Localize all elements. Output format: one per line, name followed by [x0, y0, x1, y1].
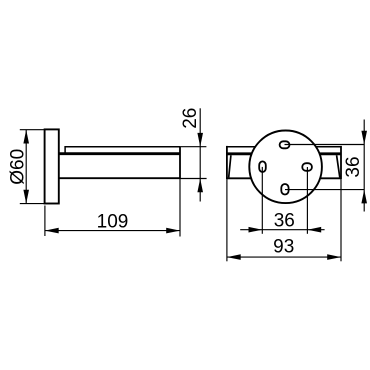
arrowhead 109 right	[166, 228, 180, 234]
svg-text:36: 36	[274, 210, 295, 231]
extension line bottom (dim 26)	[180, 178, 207, 180]
arrowhead 36v bottom	[361, 190, 367, 204]
extension line left (dim 93)	[226, 179, 228, 261]
arrowhead 26 bottom	[197, 179, 203, 193]
left screw slot	[259, 161, 266, 172]
svg-text:93: 93	[273, 236, 294, 257]
arrowhead 93 left	[227, 254, 241, 260]
arrowhead Ø60 up	[23, 130, 29, 144]
dimension line 26	[199, 108, 201, 201]
arrowhead 26 top	[197, 133, 203, 147]
wall rosette circle (front view)	[249, 131, 322, 204]
extension line right (dim 93)	[340, 179, 342, 261]
svg-text:26: 26	[180, 108, 201, 129]
arrowhead 93 right	[327, 254, 341, 260]
shelf plate top edge (side view)	[65, 147, 180, 153]
extension line right (dim 109)	[179, 179, 181, 237]
dimension line 36 vertical	[363, 120, 365, 212]
right screw slot	[302, 163, 312, 171]
svg-text:36: 36	[343, 156, 364, 177]
bar right end cap inner edge	[337, 155, 340, 177]
shelf bar top line (front view)	[227, 146, 341, 148]
shelf underside thick line (side view)	[59, 152, 181, 155]
extension line left (dim 36 horizontal)	[261, 167, 263, 234]
arrowhead Ø60 down	[23, 190, 29, 204]
bar right end cap outer edge	[340, 146, 342, 179]
leader line from bottom slot	[285, 189, 364, 191]
bottom screw slot	[281, 184, 288, 195]
arrowhead 36h left	[249, 227, 263, 233]
dimension line Ø60	[25, 130, 27, 204]
dimension line 36 horizontal	[240, 229, 324, 231]
arrowhead 36v top	[361, 131, 367, 145]
wall plate side view	[45, 129, 59, 203]
bar left end cap inner edge	[229, 155, 231, 177]
svg-text:Ø60: Ø60	[7, 149, 28, 185]
extension line right (dim 36 horizontal)	[306, 167, 308, 234]
bar left end cap outer edge	[226, 146, 228, 179]
shelf bar thick underside line (front view)	[227, 152, 341, 155]
arm bottom line (side view)	[59, 177, 181, 179]
extension line bottom (dim Ø60)	[20, 203, 45, 205]
arm end edge (side view)	[179, 147, 181, 179]
extension line left (dim 109)	[44, 206, 46, 237]
extension line top (dim 26)	[179, 146, 206, 148]
extension line top (dim Ø60)	[20, 129, 45, 131]
svg-text:109: 109	[97, 211, 129, 232]
shelf bar bottom line (front view)	[227, 177, 341, 179]
dimension line 93	[227, 256, 341, 258]
top screw slot	[280, 141, 290, 148]
leader line from top slot	[285, 144, 365, 146]
arrowhead 109 left	[45, 228, 59, 234]
arrowhead 36h right	[307, 227, 321, 233]
dimension line 109	[45, 230, 180, 232]
